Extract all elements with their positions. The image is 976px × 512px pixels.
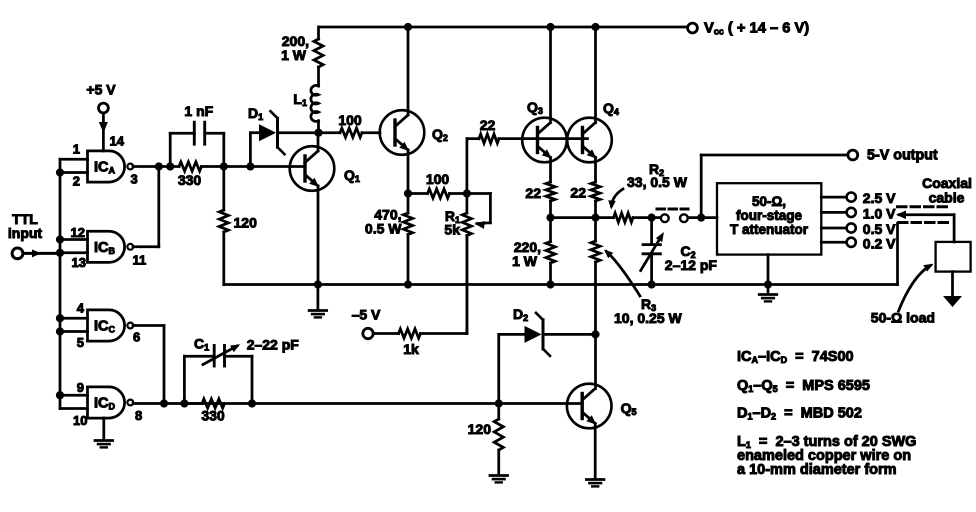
svg-text:14: 14 [110, 134, 125, 149]
svg-text:four-stage: four-stage [736, 208, 802, 223]
svg-text:D1: D1 [248, 105, 263, 122]
svg-text:Vcc ( + 14 – 6 V): Vcc ( + 14 – 6 V) [704, 21, 809, 37]
svg-text:50-Ω,: 50-Ω, [752, 194, 786, 209]
svg-text:22: 22 [570, 185, 586, 201]
svg-text:Q4: Q4 [603, 100, 619, 117]
svg-text:2: 2 [73, 174, 80, 189]
svg-text:input: input [8, 225, 43, 241]
svg-text:+5 V: +5 V [86, 82, 116, 98]
svg-text:ICB: ICB [94, 240, 116, 256]
svg-text:T attenuator: T attenuator [730, 222, 809, 237]
svg-text:11: 11 [133, 253, 147, 268]
svg-text:Q5: Q5 [621, 400, 637, 417]
svg-text:22: 22 [525, 185, 541, 201]
svg-text:22: 22 [480, 117, 496, 133]
svg-text:120: 120 [234, 215, 258, 231]
svg-text:Q1–Q5 = MPS 6595: Q1–Q5 = MPS 6595 [737, 378, 870, 394]
svg-text:50-Ω load: 50-Ω load [871, 310, 935, 326]
svg-text:100: 100 [426, 171, 450, 187]
svg-text:D2: D2 [513, 306, 528, 323]
svg-text:Q1: Q1 [344, 167, 360, 184]
svg-text:6: 6 [133, 330, 140, 345]
svg-text:Q2: Q2 [432, 126, 448, 143]
svg-text:1.0 V: 1.0 V [863, 205, 896, 221]
svg-text:0.2 V: 0.2 V [863, 235, 896, 251]
svg-text:10: 10 [73, 413, 87, 428]
svg-text:D1–D2 = MBD 502: D1–D2 = MBD 502 [737, 406, 862, 422]
svg-text:5k: 5k [444, 222, 460, 238]
svg-text:120: 120 [468, 421, 492, 437]
svg-text:3: 3 [131, 172, 138, 187]
svg-text:12: 12 [71, 225, 85, 240]
svg-text:1k: 1k [403, 341, 419, 357]
svg-text:9: 9 [77, 380, 84, 395]
svg-text:Q3: Q3 [527, 99, 543, 116]
svg-text:cable: cable [929, 190, 965, 206]
svg-text:ICA–ICD = 74S00: ICA–ICD = 74S00 [737, 349, 854, 365]
svg-text:2–12 pF: 2–12 pF [665, 257, 718, 273]
svg-text:330: 330 [178, 172, 202, 188]
svg-text:ICA: ICA [94, 160, 116, 176]
svg-text:1 W: 1 W [281, 47, 307, 63]
svg-text:ICC: ICC [94, 319, 116, 335]
svg-text:0.5 W: 0.5 W [365, 221, 402, 237]
svg-text:10, 0.25 W: 10, 0.25 W [614, 310, 682, 326]
svg-text:ICD: ICD [94, 396, 116, 412]
svg-text:8: 8 [135, 408, 142, 423]
svg-text:2–22 pF: 2–22 pF [247, 337, 300, 353]
svg-text:1 W: 1 W [512, 253, 538, 269]
svg-text:C1: C1 [194, 336, 209, 353]
svg-text:L1: L1 [293, 91, 307, 108]
svg-text:a 10-mm diameter form: a 10-mm diameter form [737, 462, 897, 478]
svg-text:–5 V: –5 V [352, 307, 381, 323]
svg-text:100: 100 [338, 112, 362, 128]
svg-text:13: 13 [72, 255, 86, 270]
svg-text:1: 1 [73, 142, 80, 157]
svg-text:5-V output: 5-V output [867, 148, 938, 164]
svg-text:5: 5 [77, 335, 84, 350]
svg-text:2.5 V: 2.5 V [863, 190, 896, 206]
svg-text:330: 330 [201, 408, 225, 424]
svg-text:33, 0.5 W: 33, 0.5 W [627, 174, 688, 190]
svg-text:4: 4 [77, 301, 85, 316]
svg-text:1 nF: 1 nF [184, 103, 213, 119]
